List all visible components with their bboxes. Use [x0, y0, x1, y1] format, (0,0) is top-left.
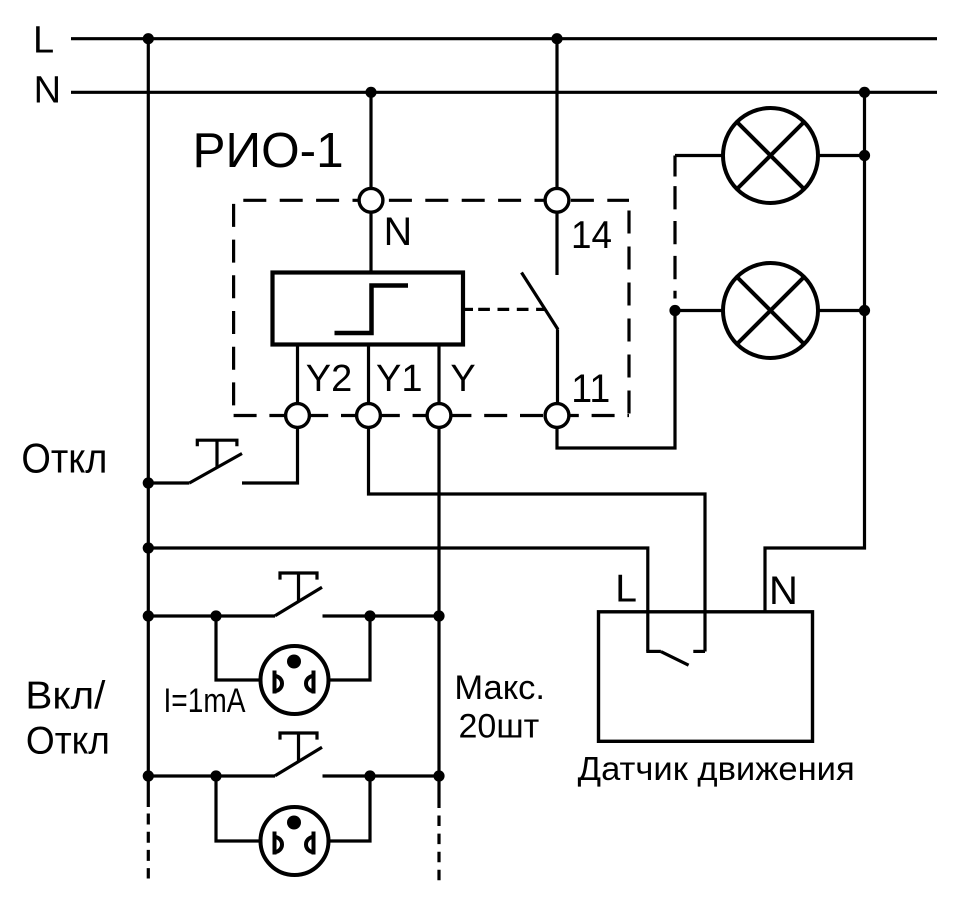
wire contact to terminal 11 [556, 330, 559, 404]
wire to neon HL1 [216, 616, 261, 680]
node junction L to contact 14 [551, 33, 562, 44]
push button SB1 stem [215, 440, 218, 467]
svg-text:Макс.: Макс. [454, 669, 545, 707]
svg-text:Y: Y [450, 358, 475, 400]
svg-text:РИО-1: РИО-1 [193, 123, 344, 178]
node junction row2 rail [143, 770, 154, 781]
wire row1 left [148, 614, 275, 617]
terminal Y1 [357, 404, 381, 428]
hysteresis step symbol [335, 286, 409, 334]
mechanical link stub [463, 308, 473, 311]
motion sensor box [599, 612, 813, 742]
push button SB2 stem [297, 573, 300, 601]
node junction neon HL2 right [364, 770, 375, 781]
wire terminal 11 to lamp group [557, 311, 675, 449]
neon lamp HL2 [261, 807, 329, 875]
wire neon HL2 out [329, 776, 371, 841]
node junction row1 Y rail [433, 610, 444, 621]
wire row2 left [148, 774, 275, 777]
node junction neon HL1 right [364, 610, 375, 621]
lamp EL2 [723, 263, 818, 358]
node junction L rail [143, 33, 154, 44]
node junction lamp feed [669, 305, 680, 316]
wire N rail down to sensor [765, 92, 865, 612]
node junction N to lamps [859, 87, 870, 98]
sensor contact left stub [646, 650, 661, 653]
wire to neon HL2 [216, 776, 261, 841]
node junction lamp EL1 N [859, 150, 870, 161]
node junction N to terminal N [365, 87, 376, 98]
wire to lamp EL2 [675, 309, 724, 312]
wire row1 right [323, 614, 440, 617]
svg-text:N: N [769, 569, 798, 613]
wire relay pin to terminal Y1 [367, 345, 370, 404]
relay module U1 dashed enclosure [234, 200, 629, 415]
node junction SB1 left [143, 477, 154, 488]
svg-text:Датчик движения: Датчик движения [578, 751, 855, 788]
wire dashed lamp extension [673, 156, 676, 177]
terminal 11 [545, 404, 569, 428]
relay contact fixed wire from terminal 14 [555, 212, 558, 275]
push button SB1 actuator [197, 440, 237, 446]
push button SB2 actuator [280, 573, 317, 580]
svg-text:L: L [615, 568, 637, 611]
wire relay pin to terminal Y2 [296, 345, 299, 404]
svg-text:Y1: Y1 [376, 358, 422, 400]
wire L bus to terminal 14 [555, 39, 558, 189]
wire terminal Y1 to sensor output [369, 427, 706, 651]
svg-text:20шт: 20шт [459, 708, 540, 746]
svg-text:L: L [33, 20, 54, 62]
wire terminal Y2 to button SB1 [242, 427, 298, 483]
wire rail to button SB1 [148, 481, 189, 484]
push button SB1 blade [189, 454, 242, 484]
push button SB2 blade [275, 587, 322, 616]
wire N bus to terminal N [369, 92, 372, 188]
push button SB3 actuator [280, 733, 317, 740]
node junction lower rail [143, 542, 154, 553]
neon lamp HL1 [261, 646, 329, 714]
svg-text:N: N [34, 70, 61, 112]
wire relay pin to terminal Y [437, 345, 440, 404]
lamp EL1 [723, 108, 818, 203]
relay contact blade [522, 273, 559, 330]
svg-text:Y2: Y2 [306, 358, 352, 400]
wire dashed left rail continuation [147, 814, 150, 879]
wire row2 right [323, 774, 440, 777]
wire left rail from L bus [147, 39, 150, 807]
node junction neon HL2 left [210, 770, 221, 781]
relay coil box with hysteresis symbol [273, 273, 464, 345]
wire terminal Y down [437, 427, 440, 808]
push button SB3 blade [275, 747, 322, 776]
terminal 14 [545, 188, 569, 212]
mechanical link dashed [478, 308, 545, 311]
terminal Y2 [286, 404, 310, 428]
wire N bus [71, 91, 937, 94]
svg-text:14: 14 [571, 214, 612, 257]
wire L bus [71, 37, 937, 40]
wire lamp EL2 to N rail [818, 309, 865, 312]
node junction row1 rail [143, 610, 154, 621]
wire terminal N to relay coil box [369, 212, 372, 272]
svg-text:N: N [384, 210, 413, 254]
svg-text:I=1mA: I=1mA [164, 682, 246, 720]
node junction row2 Y rail [433, 770, 444, 781]
wire to lamp EL1 [675, 154, 724, 157]
node junction lamp EL2 N [859, 305, 870, 316]
node junction neon HL1 left [210, 610, 221, 621]
terminal Y [427, 404, 451, 428]
sensor contact right stub [693, 650, 705, 653]
svg-text:Откл: Откл [21, 435, 107, 482]
wire lamp EL1 to N rail [818, 154, 865, 157]
svg-text:Вкл/: Вкл/ [25, 674, 105, 717]
wire neon HL1 out [329, 616, 371, 680]
svg-text:Откл: Откл [26, 720, 110, 763]
push button SB3 stem [297, 733, 300, 761]
wire dashed Y rail continuation [437, 816, 440, 881]
terminal N [359, 188, 383, 212]
sensor contact blade [661, 652, 689, 666]
svg-text:11: 11 [571, 367, 610, 411]
wire rail to sensor L [148, 548, 648, 652]
